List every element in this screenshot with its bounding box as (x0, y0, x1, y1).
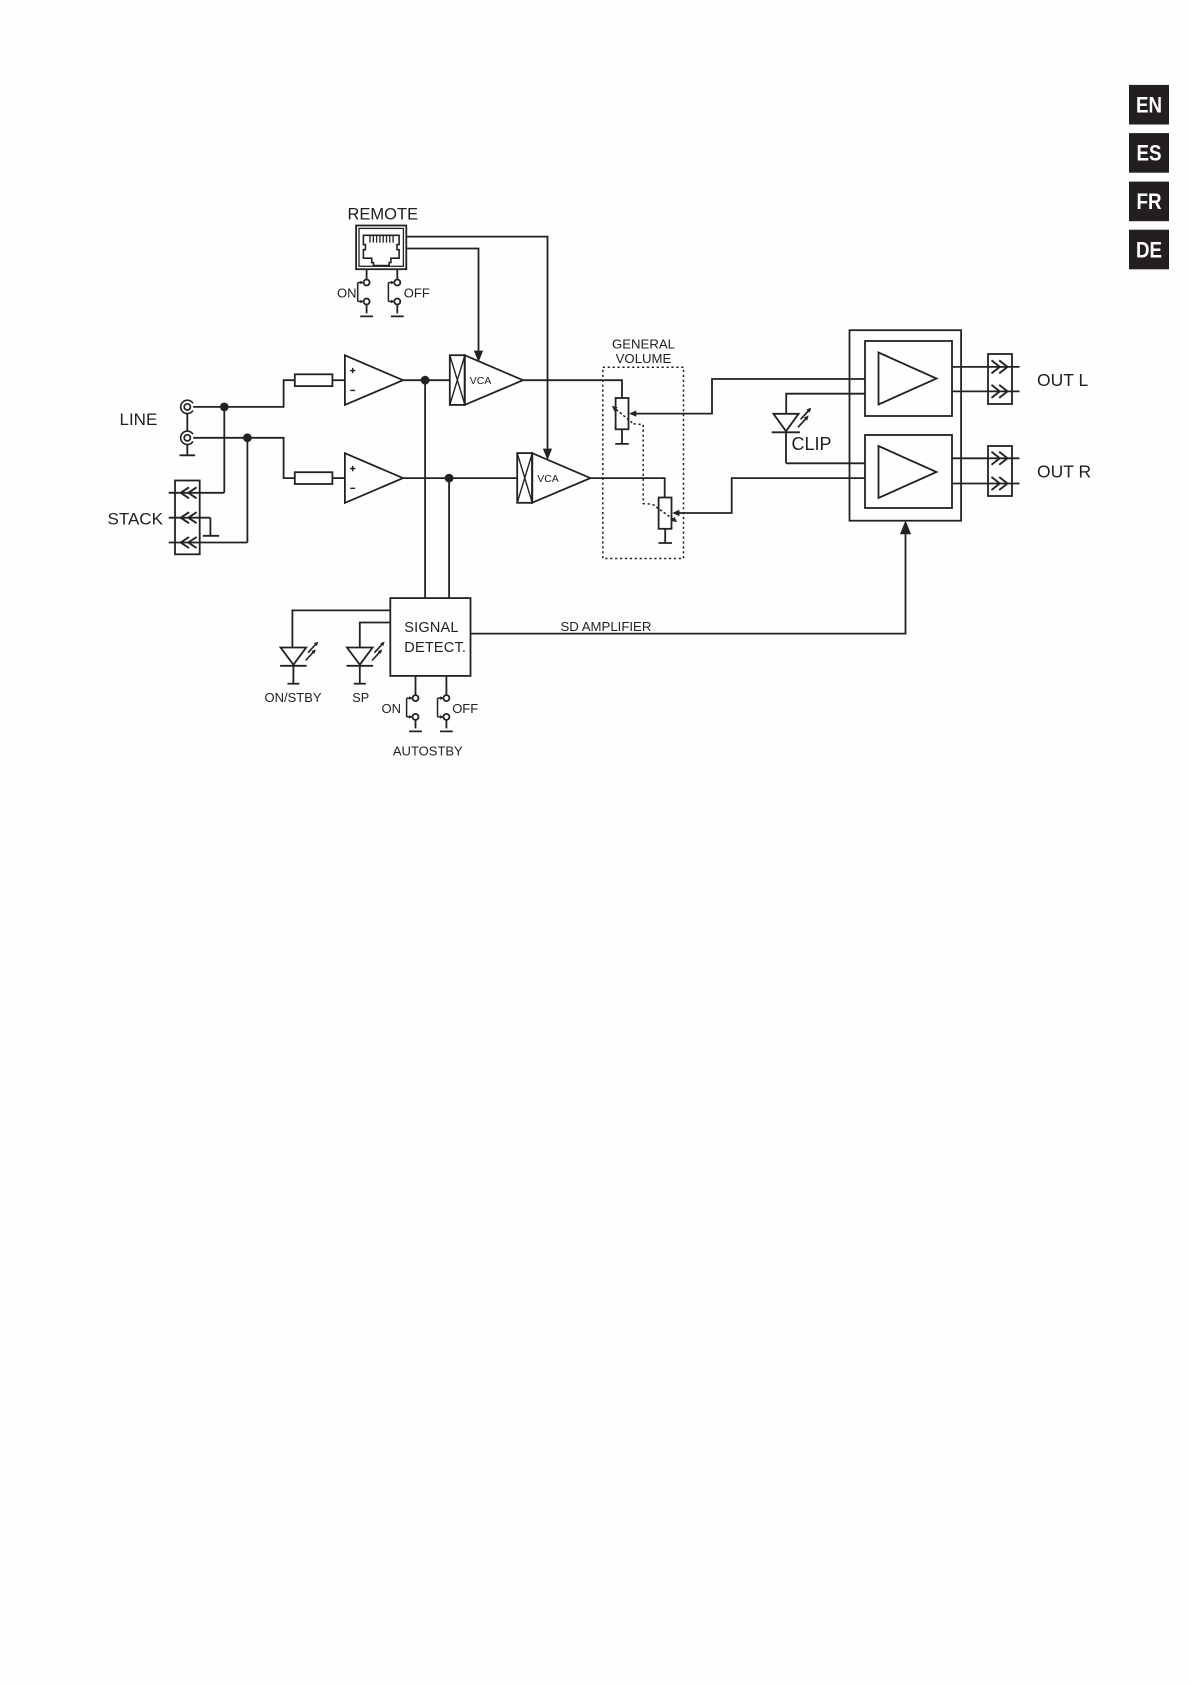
potentiometer VR2 (653, 498, 678, 529)
wire amp L out cold (952, 390, 1020, 392)
amplifier R (865, 435, 952, 508)
op-amp U3 (345, 453, 403, 503)
wire VCA2 out to pot VR2 (590, 478, 664, 497)
wire node C to signal detect (424, 380, 426, 598)
svg-text:SP: SP (352, 691, 369, 705)
switch SW3 ON (autostby) (407, 695, 422, 731)
svg-text:VOLUME: VOLUME (616, 351, 672, 366)
wire jack L to jack R (186, 414, 188, 432)
switch SW2 OFF (remote) (388, 280, 403, 317)
language tab ES (1129, 133, 1169, 173)
resistor R2 (295, 472, 333, 484)
label LINE (120, 410, 158, 429)
power amplifier block (850, 330, 962, 521)
wire U1 out to VCA1 (403, 379, 450, 381)
svg-text:ON: ON (337, 285, 357, 300)
wire SD AMPLIFIER (signal detect to amplifier) (471, 521, 912, 634)
wire signal detect to LED ON/STBY (292, 610, 390, 647)
potentiometer VR1 (612, 398, 633, 429)
wire VR1 wiper to amplifier L input (629, 379, 865, 417)
label OUT L (1037, 370, 1088, 390)
junction node A (220, 403, 229, 412)
wire signal detect to switch SW4 (445, 676, 447, 695)
wire amp L out hot (952, 366, 1020, 368)
wire amp R out hot (952, 457, 1020, 459)
svg-text:VCA: VCA (537, 473, 559, 485)
label AUTOSTBY (393, 744, 463, 759)
wire RJ45 pin to VCA1 control (406, 249, 483, 363)
op-amp U1 (345, 355, 403, 405)
connector STACK (169, 481, 248, 555)
LED SP (347, 642, 385, 684)
resistor R1 (295, 374, 333, 386)
wire LINE R to resistor R2 (193, 438, 295, 478)
svg-text:SD AMPLIFIER: SD AMPLIFIER (561, 619, 652, 634)
svg-text:OUT R: OUT R (1037, 462, 1091, 482)
ground (VR1) (615, 429, 629, 444)
svg-text:OUT L: OUT L (1037, 370, 1088, 390)
RCA jack L (LINE) (181, 400, 193, 413)
wire node B to STACK pin3 (246, 438, 248, 543)
svg-text:ES: ES (1137, 141, 1162, 166)
label STACK (108, 510, 164, 529)
svg-text:GENERAL: GENERAL (612, 336, 675, 351)
wire RJ45 to switch OFF (396, 269, 398, 279)
svg-text:OFF: OFF (452, 701, 478, 716)
general volume group dotted box (603, 367, 684, 558)
label OFF (autostby) (452, 701, 478, 716)
wire amp R out cold (952, 483, 1020, 485)
ground (VR2) (659, 529, 673, 543)
wire VR2 wiper to amplifier R input (672, 478, 865, 516)
svg-text:SIGNAL: SIGNAL (404, 620, 458, 636)
label GENERAL VOLUME (612, 336, 675, 366)
VCA U4 (right channel) (517, 453, 590, 503)
gang coupling VR1-VR2 (dashed) (634, 424, 653, 504)
wire signal detect to LED SP (360, 623, 391, 648)
signal detect block (390, 598, 470, 676)
amplifier L (865, 341, 952, 416)
svg-text:FR: FR (1137, 189, 1162, 214)
language tab DE (1129, 230, 1169, 270)
junction node B (243, 433, 252, 442)
wire R1 to op-amp U1 (332, 379, 345, 381)
svg-text:AUTOSTBY: AUTOSTBY (393, 744, 463, 759)
svg-text:CLIP: CLIP (792, 434, 832, 454)
language tab FR (1129, 182, 1169, 222)
svg-text:LINE: LINE (120, 410, 158, 429)
wire node D to signal detect (448, 478, 450, 598)
label SP (352, 691, 369, 705)
label SD AMPLIFIER (561, 619, 652, 634)
switch SW4 OFF (autostby) (438, 695, 453, 731)
ground (LED SP) (354, 683, 366, 685)
ground (line input) (180, 445, 196, 456)
switch SW1 ON (remote) (358, 280, 373, 317)
LED ON/STBY (280, 642, 318, 684)
svg-text:REMOTE: REMOTE (348, 206, 419, 224)
VCA U2 (left channel) (450, 355, 523, 405)
connector OUT R (988, 446, 1012, 496)
junction node D (445, 474, 454, 483)
wire LINE L to resistor R1 (193, 380, 295, 407)
label OUT R (1037, 462, 1091, 482)
label REMOTE (348, 206, 419, 224)
svg-text:DETECT.: DETECT. (404, 640, 466, 656)
svg-text:ON: ON (382, 701, 402, 716)
wire RJ45 to switch ON (366, 269, 368, 279)
language tab EN (1129, 85, 1169, 125)
ground (STACK pin2) (203, 518, 219, 536)
label ON/STBY (265, 690, 322, 705)
label CLIP (792, 434, 832, 454)
label OFF (remote) (404, 285, 430, 300)
wire signal detect to switch SW3 (415, 676, 417, 695)
LED CLIP (772, 394, 865, 464)
wire node A to STACK pin1 (223, 407, 225, 493)
wire R2 to op-amp U3 (332, 477, 345, 479)
wire VCA1 out to pot VR1 (523, 380, 622, 398)
svg-text:OFF: OFF (404, 285, 430, 300)
wire RJ45 pin to VCA2 control (406, 237, 552, 461)
RCA jack R (LINE) (181, 431, 193, 444)
svg-text:ON/STBY: ON/STBY (265, 690, 322, 705)
ground (LED ON/STBY) (287, 683, 299, 685)
wire U3 out to VCA2 (403, 477, 517, 479)
connector J1 RJ45 REMOTE (356, 226, 406, 270)
label ON (autostby) (382, 701, 402, 716)
junction node C (421, 376, 430, 385)
svg-text:STACK: STACK (108, 510, 164, 529)
svg-text:DE: DE (1136, 237, 1162, 262)
label ON (remote) (337, 285, 357, 300)
svg-text:VCA: VCA (470, 375, 492, 387)
svg-text:EN: EN (1136, 93, 1162, 118)
connector OUT L (988, 354, 1012, 404)
